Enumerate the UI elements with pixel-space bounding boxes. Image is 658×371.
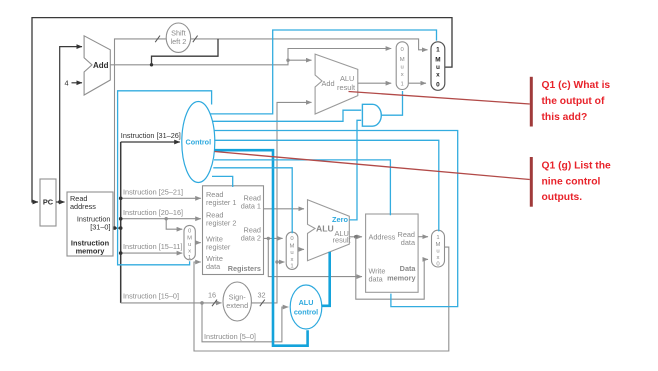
svg-text:data: data (206, 262, 221, 271)
wire: Add2 output to branch mux input 1 (358, 82, 391, 84)
mux ALUSrc (0 Mux 1) (286, 232, 298, 270)
red callout text Q1 (c) (542, 80, 611, 123)
red callout bar Q1 (g) (530, 157, 533, 207)
wire: PC+4 from Add to branch mux 0 (with jog up at x=288) (110, 49, 391, 67)
svg-text:memory: memory (76, 247, 106, 256)
wire: ALU result to data memory address (349, 235, 362, 239)
svg-text:x: x (401, 72, 404, 78)
wire: RegDst mux output to Write register (195, 242, 201, 244)
svg-text:register 2: register 2 (206, 219, 236, 228)
svg-text:M: M (435, 56, 440, 63)
control signal ALUSrc (cyan, down to ALUSrc mux select) (213, 168, 292, 234)
adder Add2 (branch target, Add ALU result) (315, 54, 358, 114)
svg-text:PC: PC (43, 198, 54, 207)
svg-text:the output of: the output of (542, 96, 605, 107)
wire: sign-extend output (32) up to Add2 bottom input (251, 102, 311, 306)
svg-text:x: x (291, 257, 294, 263)
svg-text:Registers: Registers (228, 264, 261, 273)
svg-text:1: 1 (436, 47, 440, 54)
svg-text:Instruction [31–26]: Instruction [31–26] (121, 131, 181, 140)
mux RegDst (write register select) (184, 225, 195, 260)
shift left 2 oval (jump) (166, 23, 190, 52)
mux MemtoReg (1 Mux 0) (432, 230, 445, 267)
svg-text:ALU: ALU (340, 74, 354, 83)
constant 4 input to Add (64, 79, 82, 88)
svg-text:[31–0]: [31–0] (90, 223, 110, 232)
ALU main (308, 200, 351, 261)
svg-text:M: M (400, 57, 405, 63)
mux jump (1 Mux 0, bold) (431, 42, 445, 91)
svg-text:ALU: ALU (316, 224, 334, 234)
svg-text:Instruction [20–16]: Instruction [20–16] (123, 208, 183, 217)
svg-text:x: x (437, 255, 440, 261)
svg-text:Data: Data (400, 264, 417, 273)
svg-text:Instruction [25–21]: Instruction [25–21] (123, 188, 183, 197)
svg-text:data 1: data 1 (241, 202, 261, 211)
svg-text:data: data (401, 238, 416, 247)
svg-text:Zero: Zero (332, 215, 349, 224)
wire+label: Instruction [5-0] to ALU control (202, 303, 288, 342)
ALU control oval (290, 285, 322, 329)
svg-text:Add: Add (322, 79, 335, 88)
wire+label: Instruction [15-0] to sign-extend (121, 291, 222, 307)
svg-text:1: 1 (188, 255, 191, 261)
svg-text:control: control (294, 308, 318, 317)
svg-text:M: M (187, 236, 192, 242)
wire: Instruction [20-16] branch down into RegDst mux input 0 (165, 217, 183, 229)
svg-text:Instruction [15–0]: Instruction [15–0] (123, 292, 179, 301)
svg-text:register 1: register 1 (206, 198, 236, 207)
control signal MemWrite (cyan, down to data memory top) (214, 160, 390, 215)
instruction memory box (67, 192, 113, 256)
svg-text:M: M (436, 242, 441, 248)
svg-text:x: x (436, 72, 440, 79)
svg-text:32: 32 (257, 291, 265, 300)
wire: PC output to instruction memory read address (56, 200, 65, 203)
wire: ALU control output up into ALU bottom (thick cyan) (322, 252, 330, 306)
control signal RegDst (cyan, loops left down to RegDst mux select) (118, 91, 212, 265)
control signal Branch (cyan, to AND gate top input) (213, 110, 361, 121)
svg-text:u: u (188, 242, 191, 248)
wire: ALU result bypass below data memory into MemtoReg mux input 0 (356, 237, 428, 299)
svg-text:data: data (369, 275, 384, 284)
svg-text:data 2: data 2 (241, 234, 261, 243)
wire: data memory read data to MemtoReg mux input 1 (418, 236, 428, 238)
control signal Jump (cyan, up and over to jump mux select) (211, 30, 437, 114)
wire: Read data 2 branch down to data memory write data (268, 238, 362, 276)
wire: branch mux output into jump mux input 0 (408, 82, 426, 84)
wire: PC+4 branch to Add2 top input (288, 59, 312, 61)
svg-text:x: x (188, 249, 191, 255)
data memory box (366, 214, 419, 292)
red leader line to Q1 (c) (349, 92, 530, 105)
control signal MemRead (cyan, right side down to data memory bottom) (214, 131, 458, 307)
adder Add (PC+4) (84, 36, 110, 95)
PC register box (40, 179, 56, 226)
wire: sign-extend branch into ALUSrc mux input 1 (275, 260, 284, 263)
mux branch (0 Mux 1) (396, 42, 408, 90)
svg-text:u: u (436, 64, 440, 71)
svg-text:1: 1 (290, 264, 293, 270)
svg-text:memory: memory (387, 274, 416, 283)
wire: instruction[25-0] up left side through shift-left-2 to jump address, into jump mux input 1 (115, 36, 428, 229)
wire+label: Instruction [25-21] to Read register 1 (119, 188, 201, 201)
svg-text:4: 4 (64, 79, 68, 88)
svg-text:1: 1 (436, 235, 439, 241)
control signal ALUOp (thick cyan, down to ALU control) (214, 150, 307, 346)
svg-text:result: result (333, 236, 351, 245)
wire: ALUSrc mux output to ALU input 2 (298, 248, 304, 250)
wire: black jump address merge elbow from PC+4 junction (152, 39, 219, 65)
wire: write-back from MemtoReg mux around bottom into Registers write data (194, 247, 449, 351)
svg-text:Instruction [5–0]: Instruction [5–0] (204, 332, 256, 341)
svg-text:0: 0 (436, 81, 440, 88)
wire: ALU Zero output up to AND gate bottom input (cyan) (349, 120, 361, 220)
svg-text:u: u (290, 250, 293, 256)
svg-text:Control: Control (186, 137, 212, 146)
svg-text:left 2: left 2 (170, 37, 186, 46)
svg-text:Add: Add (93, 61, 109, 70)
control oval (182, 102, 215, 183)
wire: Read data 2 to ALUSrc mux input 0 (264, 237, 283, 240)
red leader line to Q1 (g) (215, 152, 530, 180)
wire: Read data 1 to ALU input 1 (264, 208, 305, 210)
svg-text:nine control: nine control (542, 176, 601, 187)
svg-text:result: result (337, 83, 355, 92)
svg-text:Address: Address (369, 233, 396, 242)
AND gate (branch taken, cyan) (362, 104, 381, 126)
svg-text:address: address (70, 202, 96, 211)
wire+label: Instruction [15-11] into RegDst mux input 1 (119, 242, 183, 255)
svg-text:extend: extend (226, 301, 248, 310)
svg-text:1: 1 (401, 81, 404, 87)
svg-text:register: register (206, 243, 231, 252)
red callout text Q1 (g) (542, 160, 611, 203)
wire: AND gate output up into branch mux select (cyan) (382, 91, 403, 115)
sign-extend oval (223, 282, 251, 321)
registers box (203, 186, 264, 275)
svg-text:outputs.: outputs. (542, 192, 583, 203)
svg-text:ALU: ALU (299, 298, 314, 307)
wire+label: Instruction [20-16] to Read register 2 (119, 208, 201, 221)
wire: PC output up to Add top input (60, 47, 82, 202)
red callout bar Q1 (c) (530, 77, 533, 127)
wire+label: Instruction [31-26] into Control (121, 131, 181, 142)
svg-text:Instruction [15–11]: Instruction [15–11] (123, 242, 183, 251)
instruction bus vertical from instruction memory output (113, 142, 123, 303)
svg-text:Q1 (c) What is: Q1 (c) What is (542, 80, 611, 91)
svg-text:this add?: this add? (542, 112, 588, 123)
svg-text:Q1 (g) List the: Q1 (g) List the (542, 160, 611, 171)
control signal MemtoReg (cyan, down to MemtoReg mux select) (214, 140, 438, 231)
svg-text:16: 16 (208, 291, 216, 300)
svg-text:u: u (436, 249, 439, 255)
control signal RegWrite (cyan, down to Registers top) (212, 176, 233, 187)
svg-text:u: u (401, 64, 404, 70)
svg-text:M: M (290, 243, 295, 249)
wire: PC update loop from jump mux output around top and left into PC (32, 18, 452, 202)
